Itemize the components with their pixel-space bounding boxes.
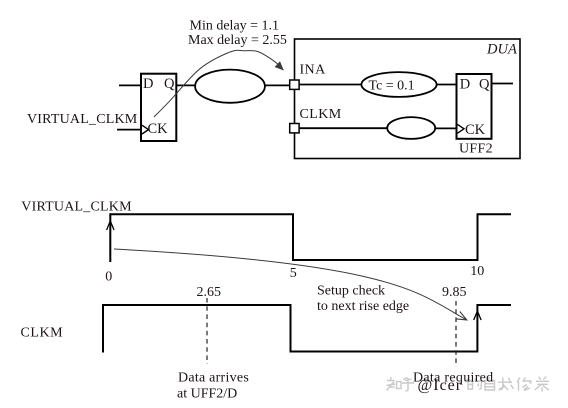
annotation 2.65 xyxy=(197,285,222,300)
wire Q of UFF1 to delay ellipse xyxy=(176,84,196,86)
port square INA xyxy=(290,80,299,89)
flip-flop UFF1 body xyxy=(141,74,176,141)
svg-text:Max delay = 2.55: Max delay = 2.55 xyxy=(188,33,287,48)
svg-text:0: 0 xyxy=(105,270,112,285)
value label Tc = 0.1 xyxy=(369,78,415,93)
svg-text:VIRTUAL_CLKM: VIRTUAL_CLKM xyxy=(27,112,138,127)
watermark glyph de xyxy=(467,378,482,390)
waveform label CLKM xyxy=(21,326,64,341)
svg-text:UFF2: UFF2 xyxy=(459,142,493,157)
svg-text:Q: Q xyxy=(479,77,490,93)
annotation data arrives line 1 xyxy=(178,371,249,386)
svg-text:9.85: 9.85 xyxy=(442,285,467,300)
svg-text:2.65: 2.65 xyxy=(197,285,222,300)
pin label Q of UFF1 xyxy=(164,76,175,92)
svg-text:Min delay = 1.1: Min delay = 1.1 xyxy=(190,19,280,34)
svg-text:Tc = 0.1: Tc = 0.1 xyxy=(369,78,415,93)
port label INA xyxy=(300,62,327,77)
wire Q output of UFF2 xyxy=(492,83,514,85)
svg-text:CLKM: CLKM xyxy=(300,107,342,122)
waveform label VIRTUAL_CLKM xyxy=(21,199,132,214)
flip-flop UFF2 body xyxy=(457,74,492,139)
pin label D of UFF1 xyxy=(143,76,153,92)
waveform VIRTUAL_CLKM trace xyxy=(110,214,511,262)
wire delay ellipse to INA port xyxy=(265,84,290,86)
DUA block boundary xyxy=(295,39,521,159)
svg-text:CK: CK xyxy=(465,122,486,138)
pin label Q of UFF2 xyxy=(479,77,490,93)
svg-text:to next rise edge: to next rise edge xyxy=(317,299,409,314)
svg-text:Data arrives: Data arrives xyxy=(178,371,249,386)
port square CLKM xyxy=(290,124,299,133)
watermark glyph hu xyxy=(402,378,414,392)
port label CLKM xyxy=(300,107,342,122)
svg-text:Setup check: Setup check xyxy=(317,284,385,299)
pin label CK of UFF2 xyxy=(465,122,486,138)
pin label CK of UFF1 xyxy=(148,121,169,137)
annotation Min delay value xyxy=(190,19,280,34)
svg-text:VIRTUAL_CLKM: VIRTUAL_CLKM xyxy=(21,199,132,214)
rise arrow on VIRTUAL_CLKM edge xyxy=(107,221,114,230)
axis label 0 xyxy=(105,270,112,285)
DUA block name xyxy=(486,42,517,58)
pin label D of UFF2 xyxy=(460,77,470,93)
Tc delay ellipse xyxy=(361,72,436,97)
watermark glyph zhi xyxy=(387,377,396,391)
annotation data arrives line 2 xyxy=(177,387,237,402)
annotation data required xyxy=(413,371,493,386)
net label VIRTUAL_CLKM xyxy=(27,112,138,127)
clock network delay ellipse xyxy=(387,117,435,139)
svg-text:INA: INA xyxy=(300,62,327,77)
svg-text:at UFF2/D: at UFF2/D xyxy=(177,387,237,402)
watermark zhihu xyxy=(387,377,550,395)
watermark glyph zi xyxy=(485,377,495,390)
waveform CLKM trace xyxy=(103,305,511,353)
svg-text:Data required: Data required xyxy=(413,371,493,386)
dashed marker at 2.65 xyxy=(206,298,208,364)
svg-text:CK: CK xyxy=(148,121,169,137)
axis label 5 xyxy=(290,266,297,281)
svg-text:D: D xyxy=(143,76,153,92)
svg-text:D: D xyxy=(460,77,470,93)
wire INA to Tc ellipse xyxy=(299,84,362,86)
annotation leader curve from CK to INA xyxy=(154,50,284,117)
setup check leader curve xyxy=(114,249,467,320)
watermark glyph xiu xyxy=(517,378,532,391)
clock triangle of UFF1 xyxy=(142,125,149,134)
rise arrow on CLKM edge xyxy=(474,311,481,320)
wire D input of UFF1 xyxy=(119,84,141,86)
reference designator UFF2 xyxy=(459,142,493,157)
delay element ellipse xyxy=(195,70,265,103)
svg-text:5: 5 xyxy=(290,266,297,281)
wire CK input of UFF1 (VIRTUAL_CLKM) xyxy=(117,129,141,131)
wire CLKM to clock ellipse xyxy=(299,127,387,129)
svg-text:DUA: DUA xyxy=(486,42,517,58)
annotation setup check line 1 xyxy=(317,284,385,299)
wire clock ellipse to CK of UFF2 xyxy=(435,127,456,129)
annotation setup check line 2 xyxy=(317,299,409,314)
axis label 10 xyxy=(470,264,484,279)
svg-text:10: 10 xyxy=(470,264,484,279)
wire Tc ellipse to D of UFF2 xyxy=(436,84,456,86)
annotation 9.85 xyxy=(442,285,467,300)
clock triangle of UFF2 xyxy=(458,124,465,133)
watermark glyph wo xyxy=(498,378,514,391)
dashed marker at 9.85 xyxy=(455,301,457,366)
svg-text:CLKM: CLKM xyxy=(21,326,64,341)
svg-text:Q: Q xyxy=(164,76,175,92)
watermark glyph yang xyxy=(535,377,549,392)
annotation Max delay value xyxy=(188,33,287,48)
